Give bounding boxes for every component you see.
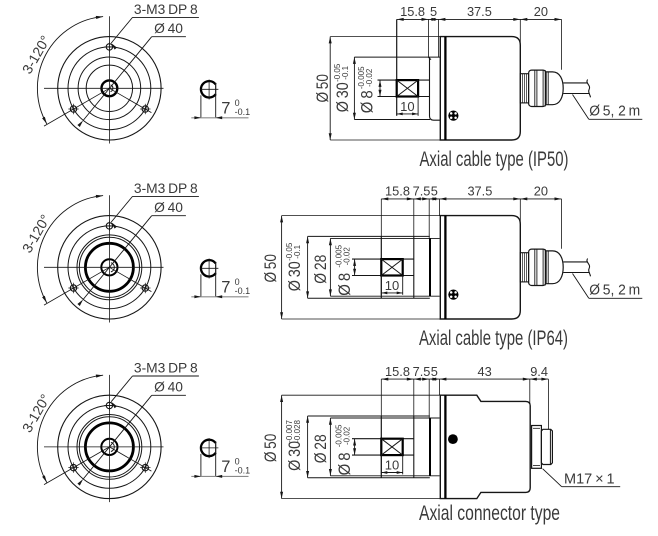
mounting screw xyxy=(448,434,458,444)
svg-text:3-M3 DP 8: 3-M3 DP 8 xyxy=(134,181,198,196)
centerline vertical xyxy=(108,375,110,502)
svg-text:5: 5 xyxy=(430,4,437,19)
radial line lower-left xyxy=(44,267,109,305)
label D28 xyxy=(311,255,330,284)
centerline horizontal xyxy=(44,266,164,268)
svg-text:Ø 8: Ø 8 xyxy=(335,452,354,475)
boss circle inner xyxy=(79,417,139,477)
cable gland knurled ring xyxy=(520,253,528,282)
flange top line xyxy=(354,56,440,58)
radial line lower-left xyxy=(44,88,109,126)
shaft keyed section (boxed X) xyxy=(381,439,402,455)
svg-text:-0.02: -0.02 xyxy=(343,247,352,266)
groove edge xyxy=(413,416,415,478)
D28 step face xyxy=(429,238,431,296)
encoder body outline xyxy=(440,216,520,319)
D50 dimension xyxy=(282,394,441,396)
svg-text:Ø 5, 2 m: Ø 5, 2 m xyxy=(589,283,640,299)
D28 dimension xyxy=(329,238,331,296)
svg-text:5: 5 xyxy=(431,364,438,379)
dimension 10 bracket xyxy=(417,97,419,116)
gland cap xyxy=(546,72,563,105)
encoder body outline xyxy=(440,37,520,140)
angle dimension arc 3-120deg xyxy=(37,196,103,303)
D50 dimension xyxy=(330,36,440,38)
svg-text:10: 10 xyxy=(385,278,399,293)
cable xyxy=(563,261,587,263)
svg-text:43: 43 xyxy=(477,364,491,379)
label D30 with tolerance xyxy=(285,261,304,291)
svg-text:9.4: 9.4 xyxy=(530,364,548,379)
centerline vertical xyxy=(108,195,110,322)
svg-text:-0.02: -0.02 xyxy=(343,426,352,445)
svg-text:Ø 28: Ø 28 xyxy=(311,255,330,284)
seal ring (thick) xyxy=(85,243,133,291)
encoder body outline (connector type) xyxy=(440,395,530,498)
centerline horizontal xyxy=(44,446,164,448)
svg-text:Axial cable type (IP64): Axial cable type (IP64) xyxy=(419,327,568,350)
svg-text:15.8: 15.8 xyxy=(385,184,410,199)
top dimension line xyxy=(381,378,548,380)
shaft circle D8 xyxy=(102,80,118,96)
radial line lower-right xyxy=(109,88,151,112)
front view flange circle D50 xyxy=(58,216,161,319)
shaft outline xyxy=(352,438,414,440)
M3 bolt hole 1 xyxy=(106,402,112,408)
svg-text:3-M3 DP 8: 3-M3 DP 8 xyxy=(134,361,198,376)
svg-text:-0.02: -0.02 xyxy=(365,68,374,87)
top dimension line xyxy=(381,198,561,200)
cable label leader xyxy=(573,274,589,299)
front view flange circle D50 xyxy=(58,37,161,140)
M3 bolt hole 1 xyxy=(106,44,112,50)
chamfer tick xyxy=(428,57,431,60)
radial line lower-right xyxy=(109,447,151,471)
boss circle outer xyxy=(77,415,142,480)
gland nut xyxy=(529,70,546,106)
D30 dimension xyxy=(307,416,309,478)
svg-text:Ø 40: Ø 40 xyxy=(154,21,183,36)
svg-text:Ø 30: Ø 30 xyxy=(333,82,352,112)
M3 bolt hole 2 xyxy=(70,464,76,470)
svg-text:Ø 50: Ø 50 xyxy=(261,434,280,463)
M17 connector ring xyxy=(532,426,542,469)
M3 bolt hole 2 xyxy=(70,285,76,291)
svg-text:7.5: 7.5 xyxy=(413,364,431,379)
svg-text:7: 7 xyxy=(221,100,230,118)
dimension 10 bracket xyxy=(380,276,382,295)
svg-text:Ø 30: Ø 30 xyxy=(285,261,304,291)
label D28 xyxy=(311,434,330,463)
label D30 with tolerance xyxy=(333,82,352,112)
D28 bottom line xyxy=(330,475,439,477)
D8 dimension xyxy=(354,259,356,275)
seal ring (thick) xyxy=(85,423,133,471)
shaft outline xyxy=(378,79,430,81)
D28 top line xyxy=(330,417,439,419)
svg-text:10: 10 xyxy=(400,99,414,114)
svg-text:-0.1: -0.1 xyxy=(341,65,350,79)
body front plate line xyxy=(444,37,446,140)
body front plate line xyxy=(444,216,446,319)
label 3-120 degrees xyxy=(19,33,54,77)
servo boss front face xyxy=(380,236,382,298)
svg-text:Ø 40: Ø 40 xyxy=(154,200,183,215)
boss circle D30 xyxy=(78,57,141,120)
svg-text:3-M3 DP 8: 3-M3 DP 8 xyxy=(134,2,198,17)
svg-text:7: 7 xyxy=(221,458,230,476)
mounting screw xyxy=(448,111,458,121)
shaft end view circle D8 with flat xyxy=(201,81,216,97)
top dimension line xyxy=(397,18,562,20)
svg-text:Ø 50: Ø 50 xyxy=(313,74,332,103)
label D8 with tolerance xyxy=(358,90,377,113)
M3 bolt hole 2 xyxy=(70,106,76,112)
flange bottom line xyxy=(354,119,430,121)
svg-text:M17 × 1: M17 × 1 xyxy=(564,472,615,488)
extension lines for width 7 xyxy=(200,95,202,118)
crosshair xyxy=(201,267,219,269)
label D8 with tolerance xyxy=(335,452,354,475)
angle dimension arc 3-120deg xyxy=(37,17,103,124)
M3 bolt hole 1 xyxy=(106,223,112,229)
servo boss front face xyxy=(380,416,382,478)
inner circle xyxy=(86,65,132,111)
label 3-120 degrees xyxy=(19,391,54,435)
centerline horizontal xyxy=(44,87,164,89)
boss top line xyxy=(308,235,430,237)
shaft circle D8 xyxy=(101,259,117,275)
flange front face xyxy=(396,19,398,115)
svg-text:37.5: 37.5 xyxy=(467,184,492,199)
cable xyxy=(563,82,587,84)
bolt circle D40 xyxy=(68,47,151,130)
extension lines for width 7 xyxy=(200,274,202,297)
label 3-120 degrees xyxy=(19,212,54,256)
shaft key arc xyxy=(111,85,113,92)
boss circle inner xyxy=(79,237,139,297)
bolt circle D40 xyxy=(68,226,151,309)
angle dimension arc 3-120deg xyxy=(37,375,103,482)
svg-text:-0.1: -0.1 xyxy=(235,107,251,117)
shaft key arc xyxy=(111,442,114,451)
M17 label leader xyxy=(543,469,562,487)
svg-text:5: 5 xyxy=(431,184,438,199)
boss circle outer xyxy=(77,235,142,300)
gland cap xyxy=(546,251,563,284)
svg-text:Ø 8: Ø 8 xyxy=(335,273,354,296)
M3 bolt hole 3 xyxy=(142,285,148,291)
centerline vertical xyxy=(108,16,110,143)
mounting screw xyxy=(448,290,458,300)
M3 bolt hole 3 xyxy=(142,464,148,470)
shaft end view circle D8 with flat xyxy=(201,440,216,456)
cable gland knurled ring xyxy=(520,74,528,103)
boss top line xyxy=(308,415,430,417)
label D50 xyxy=(313,74,332,103)
body front plate line xyxy=(444,395,446,498)
M17 connector barrel xyxy=(541,429,552,464)
D30 dimension xyxy=(353,57,355,119)
radial line lower-left xyxy=(44,447,109,485)
svg-text:Ø 40: Ø 40 xyxy=(154,380,183,395)
D30 dimension xyxy=(307,236,309,298)
dimension line 7 xyxy=(191,296,248,298)
svg-text:15.8: 15.8 xyxy=(385,364,410,379)
shaft end view circle D8 with flat xyxy=(201,260,216,276)
radial line lower-right xyxy=(109,267,151,291)
groove edge xyxy=(413,236,415,298)
cable label leader xyxy=(573,95,589,120)
shaft outline xyxy=(352,258,414,260)
svg-text:Axial cable type (IP50): Axial cable type (IP50) xyxy=(420,148,569,171)
svg-text:-0.1: -0.1 xyxy=(235,286,251,296)
svg-text:7.5: 7.5 xyxy=(413,184,431,199)
shaft flat chord xyxy=(215,262,217,275)
svg-text:20: 20 xyxy=(534,184,548,199)
svg-text:Axial connector type: Axial connector type xyxy=(419,502,560,525)
extension lines for width 7 xyxy=(200,454,202,477)
bolt circle D40 xyxy=(68,406,151,489)
shaft flat chord xyxy=(215,442,217,455)
boss front face xyxy=(430,57,441,120)
svg-text:-0.1: -0.1 xyxy=(235,466,251,476)
svg-text:-0.1: -0.1 xyxy=(293,244,302,258)
M3 bolt hole 3 xyxy=(142,106,148,112)
boss bottom line xyxy=(308,297,430,299)
svg-text:7: 7 xyxy=(221,279,230,297)
boss bottom line xyxy=(308,477,430,479)
svg-text:Ø 50: Ø 50 xyxy=(261,254,280,283)
shaft keyed section (boxed X) xyxy=(381,259,402,275)
shaft flat chord xyxy=(215,83,217,96)
svg-text:Ø 30: Ø 30 xyxy=(285,441,304,471)
label D50 xyxy=(261,254,280,283)
crosshair xyxy=(201,447,219,449)
D28 bottom line xyxy=(330,295,439,297)
svg-text:15.8: 15.8 xyxy=(400,4,425,19)
D8 dimension xyxy=(379,80,381,96)
svg-text:Ø 28: Ø 28 xyxy=(311,434,330,463)
shaft key arc xyxy=(111,263,114,272)
D28 top line xyxy=(330,237,439,239)
shaft circle D8 xyxy=(101,439,117,455)
dimension line 7 xyxy=(191,117,248,119)
label D30 with tolerance xyxy=(285,441,304,471)
dimension 10 bracket xyxy=(380,455,382,474)
svg-text:-0.028: -0.028 xyxy=(293,420,302,443)
svg-text:20: 20 xyxy=(534,4,548,19)
svg-text:37.5: 37.5 xyxy=(467,4,492,19)
gland nut xyxy=(529,249,546,285)
label D50 xyxy=(261,434,280,463)
svg-text:10: 10 xyxy=(385,458,399,473)
D28 dimension xyxy=(329,418,331,476)
crosshair xyxy=(201,88,219,90)
D50 dimension xyxy=(282,215,441,217)
D28 step face xyxy=(429,418,431,476)
shaft keyed section (boxed X) xyxy=(397,80,418,96)
svg-text:Ø 5, 2 m: Ø 5, 2 m xyxy=(589,104,640,120)
label D8 with tolerance xyxy=(335,273,354,296)
front view flange circle D50 xyxy=(58,395,161,498)
svg-text:Ø 8: Ø 8 xyxy=(358,90,377,113)
D8 dimension xyxy=(354,439,356,455)
dimension line 7 xyxy=(191,475,248,477)
